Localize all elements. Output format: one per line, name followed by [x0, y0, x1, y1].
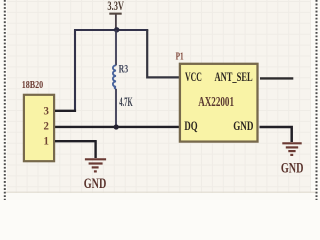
- wire DQ net (18B20 pin2 to P1 DQ): [55, 126, 180, 128]
- resistor R3: [113, 65, 116, 125]
- svg-text:18B20: 18B20: [22, 79, 44, 91]
- component 18B20 body: [24, 95, 54, 161]
- pin 3 of 18B20: [44, 106, 77, 118]
- svg-text:3.3V: 3.3V: [107, 0, 124, 13]
- svg-text:2: 2: [44, 120, 50, 132]
- svg-text:GND: GND: [281, 161, 304, 177]
- svg-text:3: 3: [44, 106, 50, 118]
- svg-text:AX22001: AX22001: [198, 94, 234, 109]
- pin ANT_SEL of P1: [215, 70, 294, 84]
- svg-text:GND: GND: [84, 176, 107, 192]
- wire pin 1 down to left ground: [94, 140, 96, 158]
- svg-text:GND: GND: [233, 119, 253, 133]
- svg-text:ANT_SEL: ANT_SEL: [215, 70, 253, 84]
- ground symbol left: [85, 159, 106, 171]
- svg-text:P1: P1: [176, 52, 184, 63]
- svg-text:4.7K: 4.7K: [119, 95, 133, 109]
- svg-text:1: 1: [44, 135, 50, 147]
- svg-text:VCC: VCC: [185, 70, 202, 84]
- svg-text:DQ: DQ: [184, 119, 197, 133]
- svg-text:R3: R3: [119, 61, 129, 75]
- wire right branch rail to VCC pin: [147, 30, 179, 78]
- wire rail junction down to resistor: [115, 30, 117, 65]
- ground symbol right: [282, 143, 301, 155]
- component P1 body: [180, 64, 258, 142]
- pin GND of P1: [233, 119, 292, 142]
- junction dot on rail: [114, 27, 119, 32]
- pin 1 of 18B20: [44, 135, 97, 147]
- junction dot on DQ wire: [114, 124, 119, 129]
- power symbol 3.3V: [107, 0, 124, 30]
- wire 3.3V rail horizontal: [74, 29, 148, 31]
- wire left branch rail to pin 3: [74, 30, 76, 111]
